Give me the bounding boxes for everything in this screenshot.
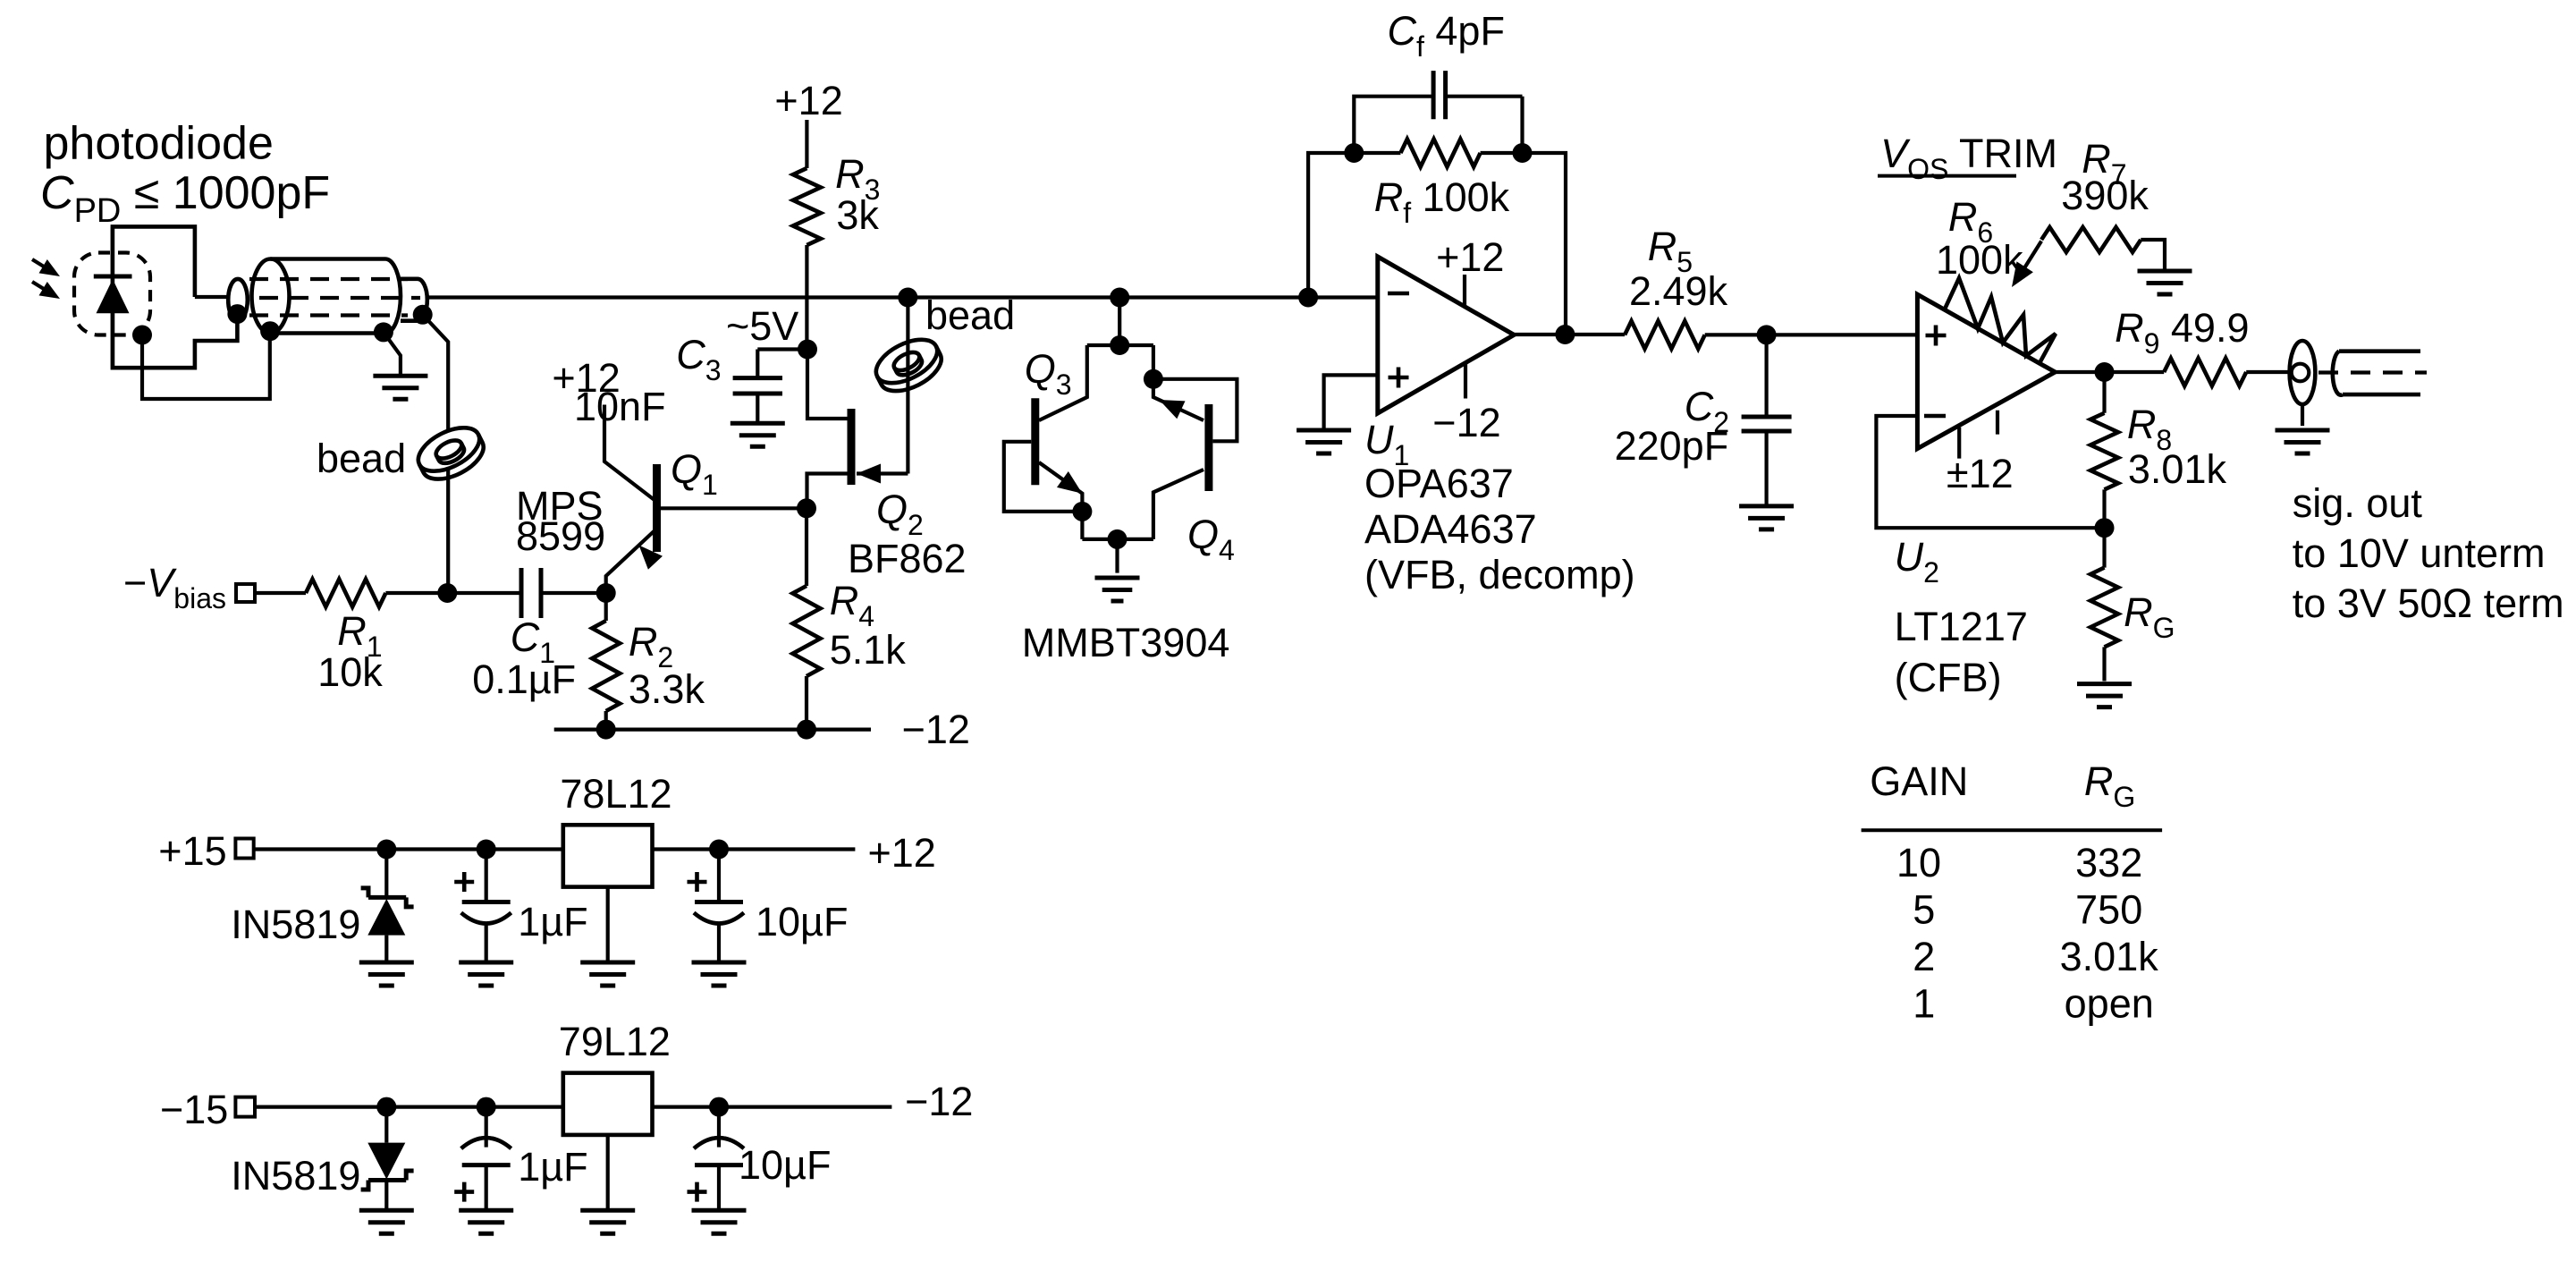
- svg-text:10nF: 10nF: [574, 384, 666, 429]
- svg-text:ADA4637: ADA4637: [1364, 506, 1537, 552]
- svg-text:+12: +12: [1436, 234, 1504, 280]
- svg-text:bead: bead: [925, 292, 1015, 338]
- svg-text:+12: +12: [774, 78, 842, 123]
- svg-text:bead: bead: [317, 436, 406, 481]
- svg-text:−12: −12: [1432, 400, 1500, 445]
- svg-text:3k: 3k: [836, 192, 879, 238]
- svg-text:photodiode: photodiode: [44, 118, 274, 170]
- svg-text:5: 5: [1913, 887, 1935, 933]
- svg-text:MMBT3904: MMBT3904: [1022, 620, 1230, 665]
- svg-text:LT1217: LT1217: [1895, 604, 2028, 649]
- svg-text:(CFB): (CFB): [1895, 655, 2002, 700]
- svg-text:10µF: 10µF: [756, 899, 848, 944]
- svg-text:+12: +12: [868, 830, 936, 876]
- svg-text:3.3k: 3.3k: [629, 666, 705, 712]
- svg-text:GAIN: GAIN: [1870, 758, 1968, 804]
- svg-text:78L12: 78L12: [560, 771, 671, 817]
- svg-text:79L12: 79L12: [559, 1019, 671, 1064]
- svg-text:0.1µF: 0.1µF: [472, 656, 576, 702]
- svg-text:3.01k: 3.01k: [2060, 934, 2159, 979]
- svg-text:10k: 10k: [317, 649, 383, 695]
- svg-text:220pF: 220pF: [1615, 423, 1729, 469]
- svg-text:IN5819: IN5819: [231, 1153, 360, 1198]
- svg-text:1µF: 1µF: [518, 1144, 587, 1190]
- svg-text:1µF: 1µF: [518, 899, 587, 944]
- svg-text:−12: −12: [902, 707, 970, 752]
- svg-text:(VFB, decomp): (VFB, decomp): [1364, 552, 1635, 597]
- svg-text:to 10V unterm: to 10V unterm: [2293, 530, 2546, 576]
- svg-text:+15: +15: [158, 828, 226, 874]
- svg-text:2: 2: [1913, 934, 1935, 979]
- svg-text:−15: −15: [160, 1087, 228, 1132]
- svg-text:OPA637: OPA637: [1364, 461, 1514, 506]
- svg-text:8599: 8599: [516, 513, 605, 559]
- svg-text:10: 10: [1896, 840, 1941, 885]
- svg-text:to 3V 50Ω term: to 3V 50Ω term: [2293, 580, 2564, 626]
- svg-text:1: 1: [1913, 981, 1935, 1027]
- svg-text:IN5819: IN5819: [231, 902, 360, 947]
- svg-text:sig. out: sig. out: [2293, 480, 2423, 526]
- svg-text:~5V: ~5V: [726, 303, 798, 349]
- svg-text:±12: ±12: [1947, 451, 2014, 496]
- svg-text:10µF: 10µF: [739, 1142, 831, 1188]
- svg-text:−12: −12: [905, 1079, 973, 1124]
- svg-text:332: 332: [2075, 840, 2142, 885]
- svg-text:390k: 390k: [2061, 173, 2149, 218]
- svg-text:750: 750: [2075, 887, 2142, 933]
- svg-text:open: open: [2065, 981, 2154, 1027]
- svg-text:5.1k: 5.1k: [830, 627, 907, 673]
- svg-text:100k: 100k: [1936, 237, 2023, 283]
- svg-text:3.01k: 3.01k: [2128, 446, 2227, 492]
- svg-text:BF862: BF862: [848, 536, 967, 581]
- svg-text:2.49k: 2.49k: [1629, 268, 1728, 314]
